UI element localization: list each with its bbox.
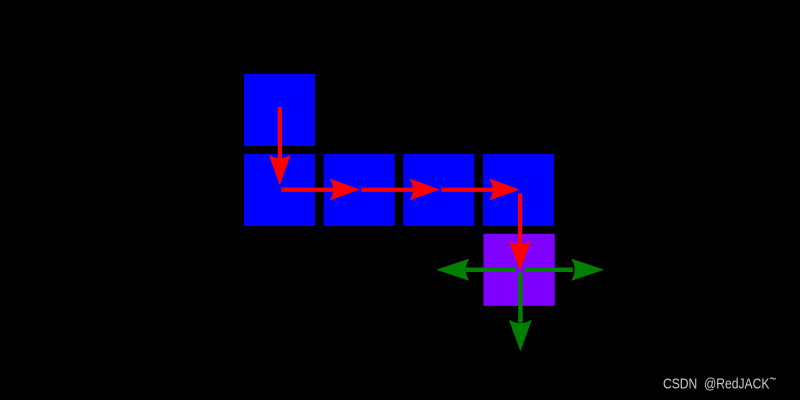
blue square S3 bbox=[324, 154, 395, 226]
blue square S4 bbox=[403, 154, 474, 226]
green arrow down head bbox=[509, 320, 532, 352]
purple square (current cell) bbox=[484, 234, 555, 306]
blue square S5 bbox=[483, 154, 554, 226]
green arrow left shaft bbox=[466, 268, 516, 273]
red arrow A1 shaft (S1 to S2, down) bbox=[278, 107, 282, 167]
green arrow right head bbox=[571, 259, 604, 281]
red arrow A3 head bbox=[409, 179, 439, 201]
red arrow A4 shaft (S4 to S5, right) bbox=[441, 188, 501, 192]
red arrow A2 shaft (S2 to S3, right) bbox=[281, 188, 341, 192]
red arrow A2 head bbox=[330, 179, 360, 201]
blue square S2 bbox=[244, 154, 315, 226]
red arrow A4 head bbox=[489, 179, 519, 201]
red arrow A1 head bbox=[269, 155, 291, 186]
red arrow A5 head bbox=[509, 241, 531, 271]
green arrow left head bbox=[436, 259, 469, 281]
red arrow A5 shaft (S5 to purple, down) bbox=[518, 193, 522, 253]
blue square S1 (top) bbox=[244, 74, 315, 146]
red arrow A3 shaft (S3 to S4, right) bbox=[361, 188, 421, 192]
green arrow right shaft bbox=[525, 268, 573, 273]
green arrow down shaft bbox=[518, 273, 523, 323]
